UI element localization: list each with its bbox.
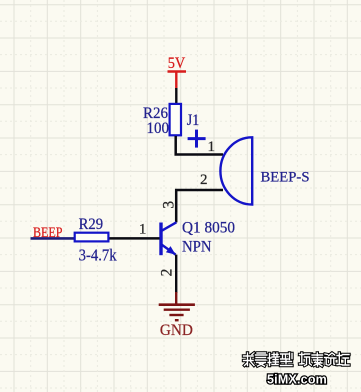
svg-text:GND: GND <box>160 322 193 339</box>
svg-text:Q1 8050: Q1 8050 <box>182 219 235 236</box>
svg-text:100: 100 <box>147 120 170 137</box>
svg-text:J1: J1 <box>187 112 200 129</box>
svg-text:5iMX.com: 5iMX.com <box>267 372 327 386</box>
svg-text:BEEP-S: BEEP-S <box>261 169 310 185</box>
svg-text:NPN: NPN <box>182 239 212 256</box>
svg-text:5V: 5V <box>168 55 186 72</box>
svg-text:2: 2 <box>200 172 208 188</box>
svg-text:3: 3 <box>160 201 177 209</box>
svg-text:1: 1 <box>139 221 147 237</box>
svg-text:R29: R29 <box>79 216 104 233</box>
svg-text:3-4.7k: 3-4.7k <box>79 245 118 264</box>
svg-text:1: 1 <box>208 139 216 155</box>
svg-text:2: 2 <box>159 269 176 277</box>
